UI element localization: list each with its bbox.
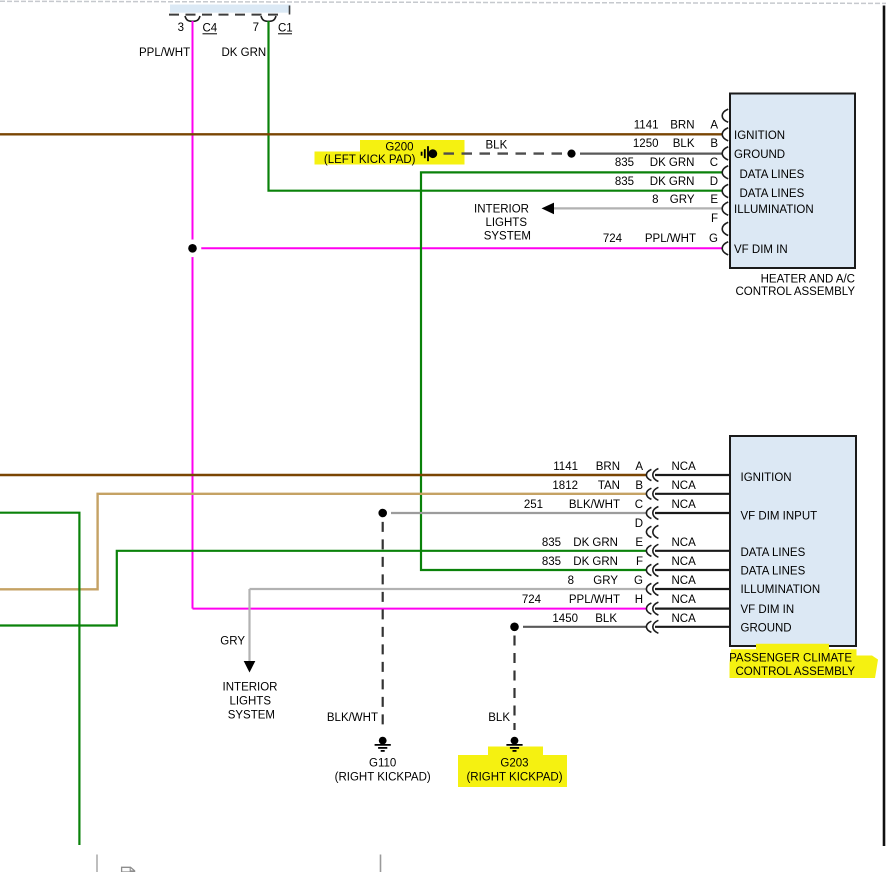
svg-text:NCA: NCA [672, 537, 697, 549]
svg-text:G: G [709, 233, 718, 245]
svg-text:SYSTEM: SYSTEM [484, 231, 531, 243]
svg-text:GROUND: GROUND [734, 149, 785, 161]
svg-text:G110: G110 [369, 757, 396, 769]
svg-text:835: 835 [615, 157, 634, 169]
label 251 BLK/WHT C NCA [524, 499, 696, 511]
svg-text:D: D [710, 176, 718, 188]
svg-text:LIGHTS: LIGHTS [485, 217, 527, 229]
wire DK GRN 835 to heater pin C and down to passenger pin F [421, 172, 722, 570]
label 835 DK GRN D [615, 176, 718, 188]
caption HEATER AND A/C CONTROL ASSEMBLY [735, 274, 855, 299]
bottom panel divider left [96, 855, 98, 872]
label VF DIM INPUT (passenger) [741, 511, 818, 523]
label PPL/WHT (top wire) [139, 47, 190, 59]
svg-text:NCA: NCA [672, 575, 697, 587]
svg-text:IGNITION: IGNITION [734, 130, 785, 142]
ground G110 [375, 737, 391, 751]
svg-text:DATA LINES: DATA LINES [740, 169, 805, 181]
wire BLK 1450 dashed down to G203 [513, 636, 515, 731]
svg-text:GRY: GRY [670, 194, 695, 206]
label 835 DK GRN F NCA [542, 556, 696, 568]
highlight G203 (RIGHT KICKPAD) [458, 747, 567, 788]
svg-text:H: H [635, 594, 643, 606]
heater box pin E terminal [722, 202, 728, 215]
svg-text:PPL/WHT: PPL/WHT [645, 233, 696, 245]
svg-text:PPL/WHT: PPL/WHT [569, 594, 620, 606]
label BLK (G203 wire) [488, 712, 510, 724]
label VF DIM IN (heater) [734, 244, 788, 256]
label DATA LINES (heater C) [740, 169, 805, 181]
svg-text:724: 724 [603, 233, 623, 245]
svg-text:C: C [710, 157, 718, 169]
svg-text:NCA: NCA [672, 613, 697, 625]
label 724 PPL/WHT G [603, 233, 718, 245]
passenger pin H terminal and NCA wire [646, 602, 730, 615]
svg-text:251: 251 [524, 499, 543, 511]
junction dot on BLK 1450 [510, 623, 519, 632]
svg-text:1812: 1812 [552, 480, 578, 492]
svg-text:DATA LINES: DATA LINES [741, 566, 806, 578]
passenger pin C terminal and NCA wire [646, 507, 730, 520]
passenger pin E terminal and NCA wire [646, 544, 730, 557]
svg-text:1141: 1141 [553, 461, 578, 473]
svg-text:DATA LINES: DATA LINES [740, 188, 805, 200]
svg-text:NCA: NCA [672, 499, 697, 511]
svg-text:F: F [711, 213, 718, 225]
svg-text:IGNITION: IGNITION [741, 472, 792, 484]
wire BLK 1450 to passenger ground pin [523, 626, 647, 628]
svg-text:PASSENGER CLIMATE: PASSENGER CLIMATE [729, 653, 852, 665]
svg-text:GROUND: GROUND [741, 622, 792, 634]
label 1141 BRN A [634, 119, 719, 131]
svg-text:BLK: BLK [673, 138, 695, 150]
highlight PASSENGER CLIMATE CONTROL ASSEMBLY [730, 644, 879, 678]
label BLK (G200 wire) [486, 140, 508, 152]
svg-text:BLK: BLK [486, 140, 508, 152]
label DATA LINES (passenger E) [741, 547, 806, 559]
wire GRY vertical down to arrow [248, 589, 250, 661]
passenger pin F terminal and NCA wire [646, 564, 730, 577]
label INTERIOR LIGHTS SYSTEM (middle) [474, 204, 531, 243]
svg-text:NCA: NCA [672, 461, 697, 473]
wire BLK/WHT 251 dashed down to G110 [382, 522, 384, 730]
label VF DIM IN (passenger) [741, 604, 795, 616]
svg-text:VF DIM IN: VF DIM IN [734, 244, 788, 256]
svg-text:DK GRN: DK GRN [573, 537, 618, 549]
heater box pin G terminal [722, 242, 728, 255]
svg-text:SYSTEM: SYSTEM [228, 710, 275, 722]
arrow to interior lights system (left) [542, 203, 555, 215]
svg-text:DATA LINES: DATA LINES [741, 547, 806, 559]
svg-text:ILLUMINATION: ILLUMINATION [741, 584, 821, 596]
junction dot on BLK 1250 [567, 150, 575, 158]
wire DK GRN left branch [0, 513, 79, 845]
label D [635, 518, 643, 530]
heater box pin A terminal [722, 128, 728, 141]
svg-text:BLK/WHT: BLK/WHT [327, 712, 378, 724]
passenger climate control assembly box U2 [730, 436, 856, 646]
svg-text:3: 3 [178, 22, 184, 34]
top faint frame line [0, 1, 886, 3]
svg-text:835: 835 [542, 556, 561, 568]
svg-text:CONTROL ASSEMBLY: CONTROL ASSEMBLY [735, 666, 855, 678]
svg-text:BRN: BRN [596, 461, 620, 473]
heater connector top arc [722, 109, 728, 122]
svg-text:724: 724 [522, 594, 542, 606]
passenger ground pin terminal and NCA wire [646, 620, 730, 633]
connector block C4/C1 (top) [169, 5, 291, 15]
svg-text:VF DIM INPUT: VF DIM INPUT [741, 511, 818, 523]
svg-text:B: B [635, 480, 643, 492]
wire TAN 1812 to passenger pin B [0, 494, 647, 590]
svg-text:NCA: NCA [672, 480, 697, 492]
bottom partial page icon [122, 867, 135, 872]
passenger pin G terminal and NCA wire [646, 583, 730, 596]
svg-text:E: E [635, 537, 643, 549]
svg-text:NCA: NCA [672, 594, 697, 606]
svg-text:BLK/WHT: BLK/WHT [569, 499, 620, 511]
label pin 7 / C1 [253, 22, 293, 35]
passenger pin B terminal and NCA wire [646, 487, 730, 500]
label 835 DK GRN C [615, 157, 718, 169]
caption PASSENGER CLIMATE CONTROL ASSEMBLY [729, 653, 855, 679]
label DATA LINES (heater D) [740, 188, 805, 200]
svg-text:DK GRN: DK GRN [573, 556, 618, 568]
label DK GRN (top wire) [222, 47, 267, 59]
label G203 (RIGHT KICKPAD) [466, 757, 562, 783]
svg-text:835: 835 [542, 537, 561, 549]
label 1450 BLK NCA [552, 613, 696, 625]
svg-text:1250: 1250 [633, 138, 659, 150]
label F [711, 213, 718, 225]
label 1250 BLK B [633, 138, 718, 150]
svg-text:INTERIOR: INTERIOR [474, 204, 529, 216]
ground G200 symbol [422, 146, 438, 161]
label GROUND (passenger) [741, 622, 792, 634]
highlight G200 (LEFT KICK PAD) [315, 140, 465, 165]
svg-text:G: G [634, 575, 643, 587]
label G110 (RIGHT KICKPAD) [335, 757, 431, 783]
heater box pin C terminal [722, 166, 728, 179]
label BLK/WHT (G110 wire) [327, 712, 378, 724]
svg-text:835: 835 [615, 176, 634, 188]
svg-text:(RIGHT KICKPAD): (RIGHT KICKPAD) [335, 771, 431, 783]
svg-text:DK GRN: DK GRN [222, 47, 267, 59]
label (LEFT KICK PAD) [324, 154, 416, 166]
label INTERIOR LIGHTS SYSTEM (bottom) [223, 682, 278, 722]
svg-text:(LEFT KICK PAD): (LEFT KICK PAD) [324, 154, 416, 166]
svg-text:DK GRN: DK GRN [650, 176, 695, 188]
right page border [883, 6, 886, 847]
svg-text:ILLUMINATION: ILLUMINATION [734, 204, 814, 216]
svg-text:D: D [635, 518, 643, 530]
heater box pin B terminal [722, 147, 728, 160]
svg-text:8: 8 [568, 575, 574, 587]
svg-text:C: C [635, 499, 643, 511]
svg-text:8: 8 [652, 194, 658, 206]
label 8 GRY E [652, 194, 718, 206]
wire DK GRN 835 vertical from C1 pin 7 [269, 21, 723, 191]
svg-text:C4: C4 [203, 23, 218, 35]
passenger pin D terminal [646, 525, 658, 538]
svg-text:HEATER AND A/C: HEATER AND A/C [761, 274, 855, 286]
wire PPL/WHT 724 horizontal to heater pin G [193, 247, 723, 249]
svg-text:BRN: BRN [670, 119, 694, 131]
svg-text:DK GRN: DK GRN [650, 157, 695, 169]
label 1141 BRN A NCA [553, 461, 696, 473]
label 835 DK GRN E NCA [542, 537, 696, 549]
svg-text:LIGHTS: LIGHTS [229, 696, 271, 708]
label 724 PPL/WHT H NCA [522, 594, 696, 606]
label G200 [385, 142, 413, 154]
svg-text:C1: C1 [278, 23, 293, 35]
svg-text:VF DIM IN: VF DIM IN [741, 604, 795, 616]
svg-text:B: B [710, 138, 718, 150]
wire GRY 8 to passenger pin G [250, 588, 648, 590]
svg-text:A: A [710, 119, 718, 131]
passenger pin A terminal and NCA wire [646, 469, 730, 482]
wire BLK 1250 dashed from G200 [444, 152, 564, 154]
svg-text:1450: 1450 [552, 613, 578, 625]
label ILLUMINATION (heater) [734, 204, 814, 216]
svg-text:G200: G200 [385, 142, 413, 154]
svg-text:TAN: TAN [598, 480, 620, 492]
arrow down to interior lights system [244, 661, 256, 673]
junction dot on PPL/WHT [184, 240, 202, 258]
svg-text:E: E [710, 194, 718, 206]
wire GRY 8 to heater pin E [553, 207, 722, 209]
svg-text:BLK: BLK [488, 712, 510, 724]
label IGNITION (passenger) [741, 472, 792, 484]
ground G203 [506, 737, 522, 751]
bottom panel divider right [380, 855, 382, 872]
label 8 GRY G NCA [568, 575, 697, 587]
label 1812 TAN B NCA [552, 480, 696, 492]
svg-text:NCA: NCA [672, 556, 697, 568]
label IGNITION (heater) [734, 130, 785, 142]
label DATA LINES (passenger F) [741, 566, 806, 578]
svg-text:INTERIOR: INTERIOR [223, 682, 278, 694]
svg-text:CONTROL ASSEMBLY: CONTROL ASSEMBLY [735, 286, 855, 298]
junction dot on BLK/WHT 251 [378, 509, 387, 518]
wire PPL/WHT 724 horizontal to passenger pin H [193, 608, 648, 610]
heater and A/C control assembly box U1 [730, 94, 855, 269]
wire BLK/WHT 251 solid to passenger pin C [391, 512, 647, 514]
wire BRN 1141 to heater pin A [0, 133, 722, 135]
svg-text:A: A [635, 461, 643, 473]
label GROUND (heater) [734, 149, 785, 161]
label ILLUMINATION (passenger) [741, 584, 821, 596]
pin 7 terminal of C1 [261, 16, 276, 21]
label pin 3 / C4 [178, 22, 218, 35]
svg-text:G203: G203 [500, 757, 528, 769]
svg-text:PPL/WHT: PPL/WHT [139, 47, 190, 59]
svg-text:7: 7 [253, 22, 259, 34]
pin 3 terminal of C4 [185, 16, 200, 21]
svg-text:1141: 1141 [634, 119, 659, 131]
wire PPL/WHT 724 vertical from C4 pin 3 [192, 21, 194, 609]
label GRY [220, 636, 245, 648]
wire DK GRN 835 to passenger pin E [0, 551, 647, 626]
svg-text:F: F [636, 556, 643, 568]
wire BLK 1250 solid to heater pin B [580, 153, 722, 155]
heater box pin F terminal [722, 222, 728, 235]
svg-text:GRY: GRY [220, 636, 245, 648]
heater box pin D terminal [722, 184, 728, 197]
wire BRN 1141 to passenger pin A [0, 474, 647, 476]
svg-text:BLK: BLK [595, 613, 617, 625]
svg-text:(RIGHT KICKPAD): (RIGHT KICKPAD) [466, 771, 562, 783]
svg-text:GRY: GRY [593, 575, 618, 587]
